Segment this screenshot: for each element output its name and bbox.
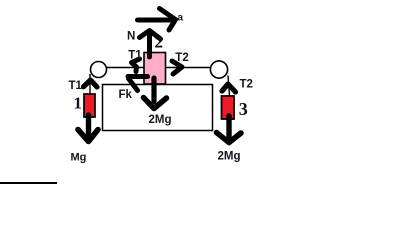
pulley right	[210, 61, 227, 78]
arrow a (acceleration, top)	[138, 9, 176, 31]
svg-text:Fk: Fk	[119, 89, 133, 101]
svg-text:N: N	[127, 31, 135, 43]
arrow T2 chevron on right rope	[172, 61, 182, 74]
block 1 (red)	[84, 94, 95, 117]
wire rope right horizontal	[166, 67, 211, 69]
svg-text:2: 2	[155, 33, 164, 52]
svg-text:T2: T2	[175, 52, 188, 64]
svg-text:T1: T1	[69, 80, 83, 92]
wire rope left horizontal	[105, 67, 145, 69]
svg-text:1: 1	[74, 94, 83, 113]
arrow T1 chevron above block 1	[84, 80, 98, 87]
arrow N (normal force, up)	[140, 31, 161, 58]
svg-text:Mg: Mg	[71, 151, 87, 163]
svg-text:T1: T1	[128, 50, 142, 62]
table rectangle	[103, 85, 213, 131]
arrow Mg (weight of block 1, down)	[78, 115, 98, 142]
arrow T2 chevron above block 3	[222, 84, 236, 92]
svg-text:T2: T2	[240, 79, 253, 91]
svg-text:3: 3	[239, 99, 248, 119]
arrow 2Mg (weight of block 3, down)	[217, 116, 242, 143]
wire rope left vertical	[89, 74, 91, 94]
arrow T1 squiggle chevron at block 2 left	[132, 59, 140, 72]
wire rope right vertical	[228, 76, 230, 97]
ground line stub bottom left	[0, 182, 57, 184]
svg-text:a: a	[177, 12, 183, 24]
svg-text:2Mg: 2Mg	[218, 150, 241, 162]
pulley left	[91, 62, 107, 78]
arrow Fk (friction, left)	[128, 77, 148, 91]
block 2 (pink)	[144, 53, 166, 85]
svg-text:2Mg: 2Mg	[149, 114, 172, 126]
block 3 (red)	[222, 96, 235, 119]
arrow 2Mg (weight of block 2, down)	[144, 78, 167, 109]
